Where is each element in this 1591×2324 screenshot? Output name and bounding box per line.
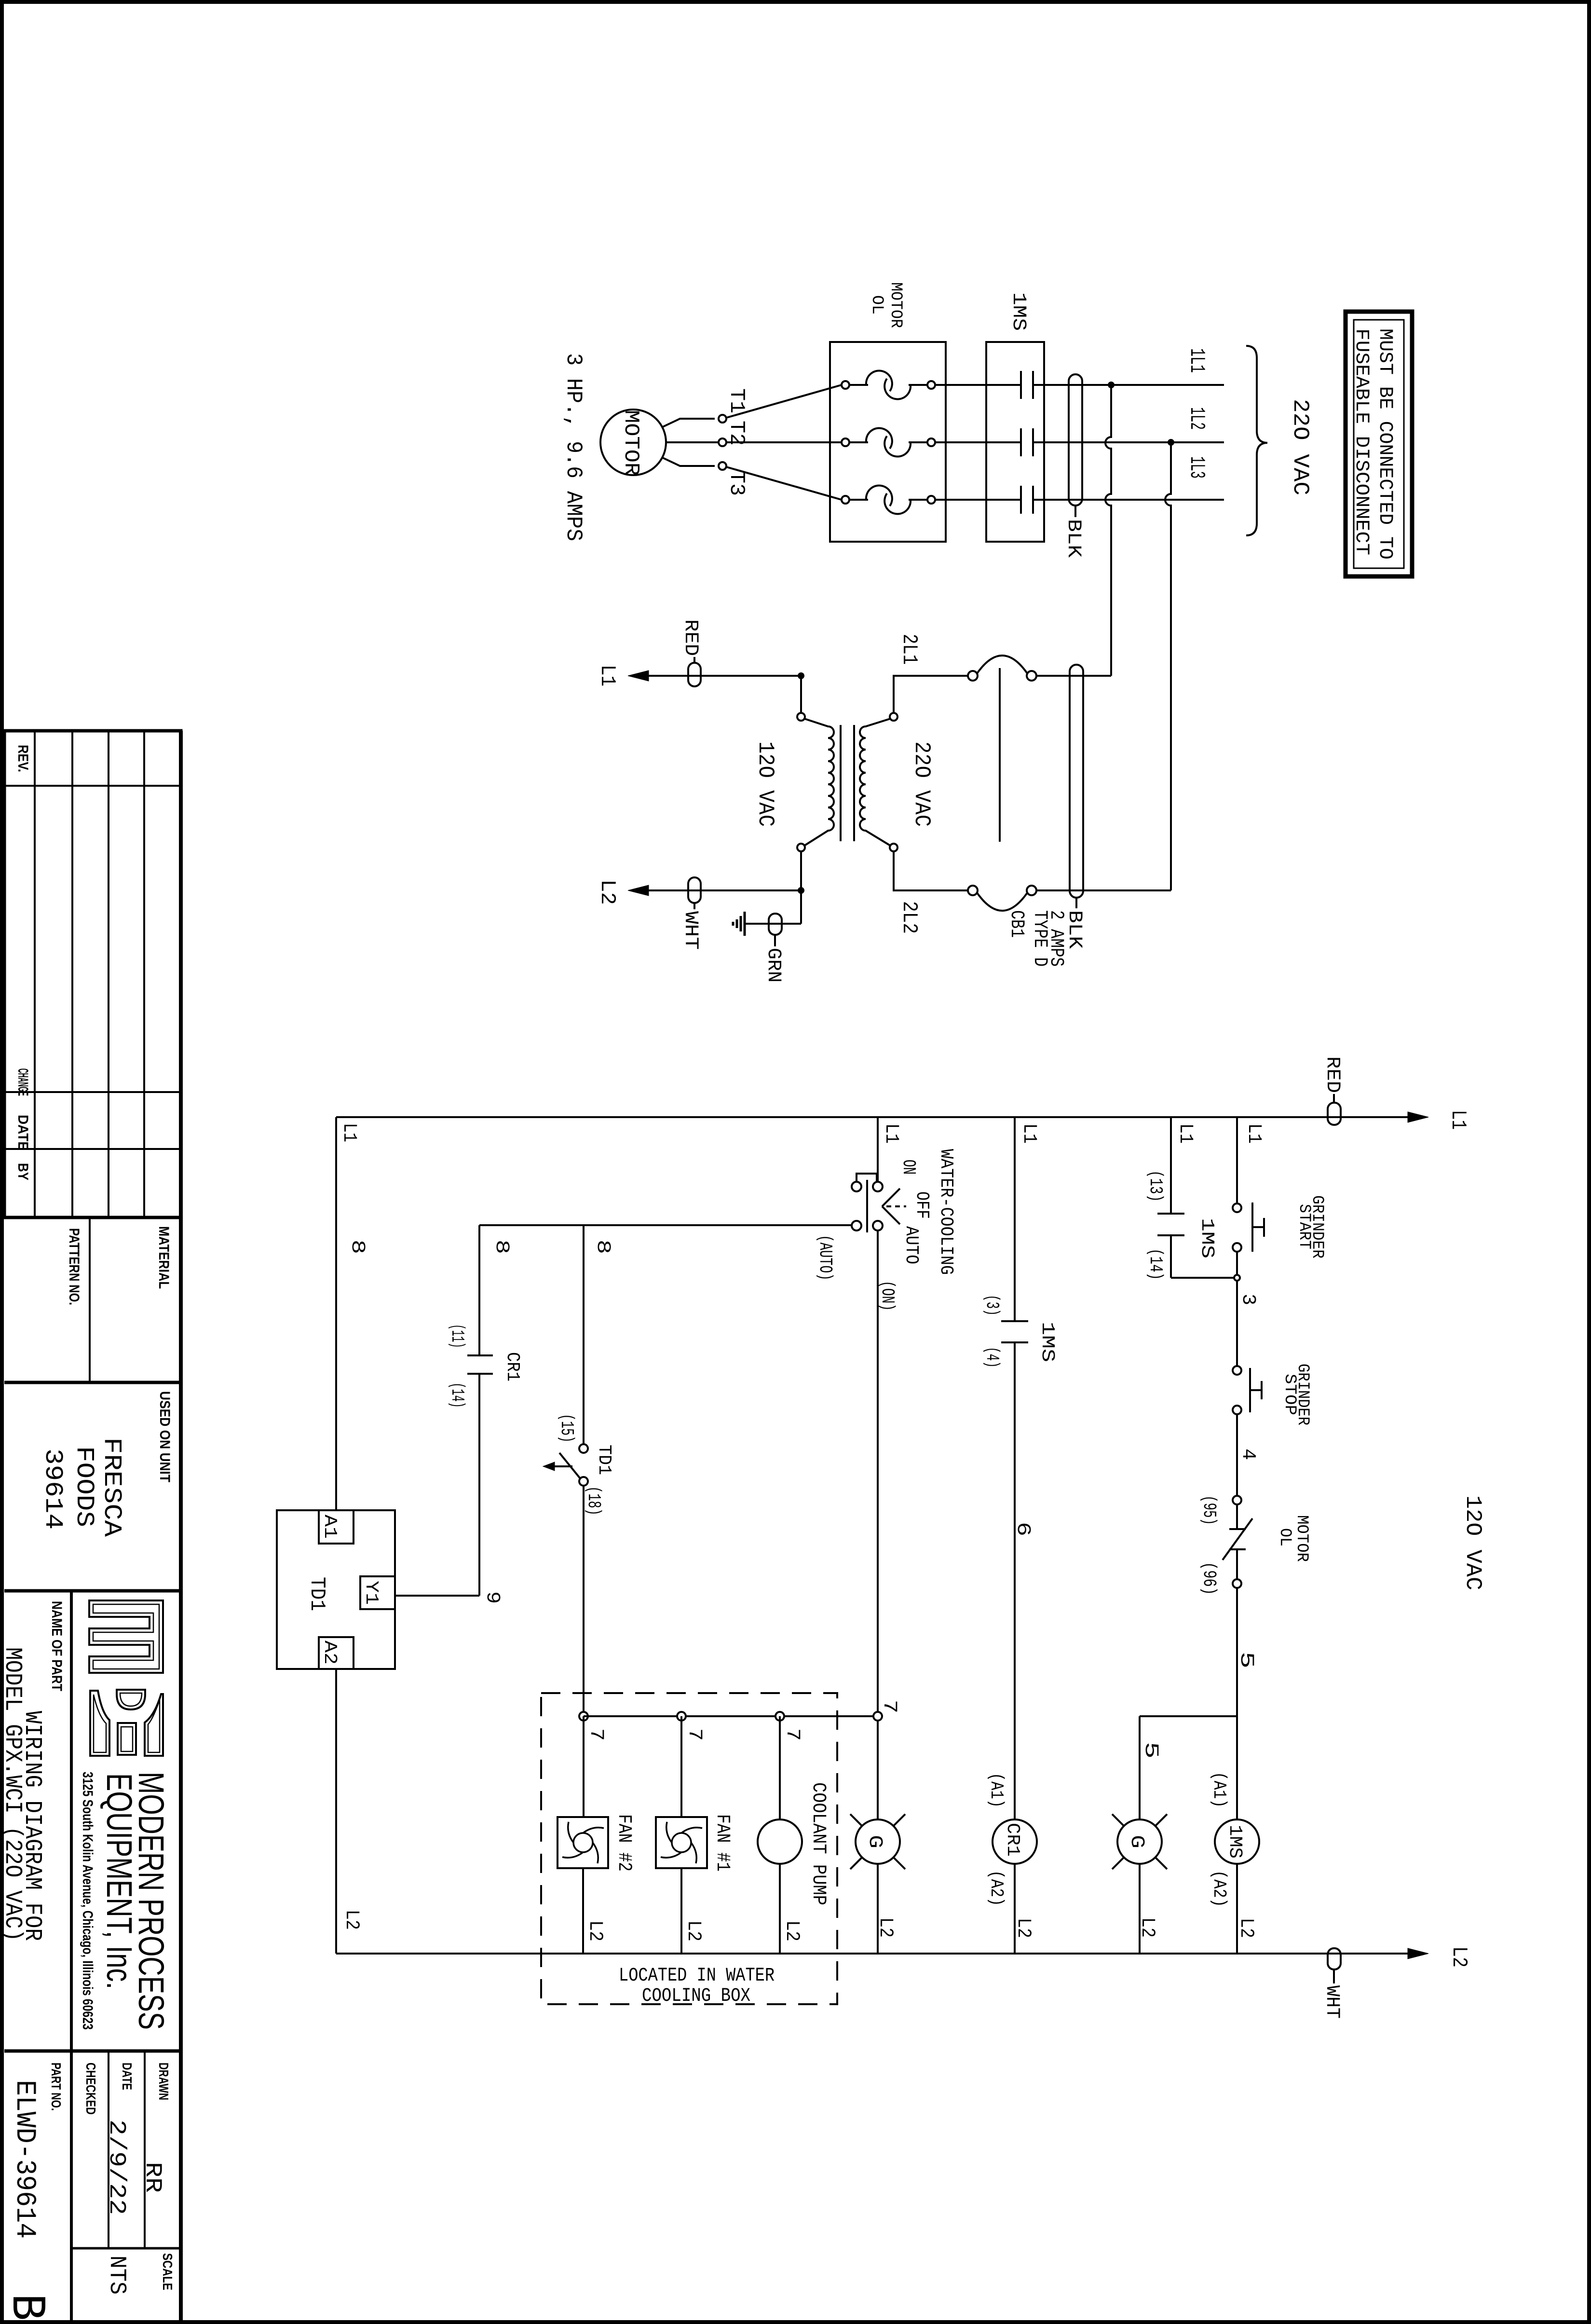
wire 1MS to bus row1: [1033, 384, 1224, 386]
1MS contact bar A row1: [1020, 371, 1022, 399]
wire CR1 coil to L2: [1014, 1864, 1016, 1954]
svg-text:RED: RED: [680, 619, 701, 656]
wire fan1 to L2: [680, 1868, 682, 1954]
svg-text:ON: ON: [898, 1160, 919, 1175]
selector contact top-right: [873, 1182, 883, 1191]
svg-text:1L1: 1L1: [1184, 348, 1209, 373]
svg-text:LOCATED IN WATER: LOCATED IN WATER: [619, 1965, 775, 1987]
junction 1L2 tap: [1168, 439, 1174, 446]
wire GRN drop: [800, 890, 802, 924]
selector lever ON: [882, 1189, 900, 1206]
wire out of OL contact: [1236, 1549, 1238, 1579]
tick WHT (transformer): [694, 903, 695, 909]
cable marker BLK oval (CB1): [1070, 665, 1083, 898]
brace 220VAC supply: [1246, 346, 1267, 535]
svg-text:FOODS: FOODS: [70, 1446, 98, 1527]
tick BLK (CB1): [1075, 898, 1077, 908]
svg-text:(A2): (A2): [1209, 1870, 1229, 1907]
wire G lamp drop (1MS): [1139, 1716, 1141, 1819]
logo P/E right bar with swoosh: [145, 1694, 163, 1756]
svg-text:5: 5: [1140, 1742, 1161, 1759]
svg-text:(96): (96): [1198, 1562, 1219, 1595]
svg-text:T1: T1: [724, 388, 748, 413]
svg-text:12O VAC: 12O VAC: [1460, 1495, 1485, 1590]
wire primary top drop: [800, 676, 802, 713]
wire CB1 to 1L1 drop: [1036, 675, 1111, 677]
svg-text:L2: L2: [1136, 1917, 1158, 1938]
svg-text:1MS: 1MS: [1197, 1218, 1217, 1258]
overload OL box: [830, 342, 946, 542]
svg-text:7: 7: [781, 1728, 803, 1741]
material section bottom: [4, 1381, 181, 1384]
svg-text:OL: OL: [868, 295, 886, 314]
revision table frame: [4, 731, 181, 1217]
relay coil CR1 circle: [993, 1819, 1037, 1864]
OL heater element row3 arc2: [884, 493, 911, 514]
drawn/date divider: [144, 2051, 146, 2248]
svg-text:FAN #2: FAN #2: [613, 1814, 635, 1872]
material/pattern divider: [89, 1217, 91, 1382]
OL heater terminal left row2: [842, 438, 849, 446]
svg-text:DATE: DATE: [120, 2063, 135, 2090]
dashed box LOCATED IN WATER COOLING BOX: [541, 1693, 837, 2004]
wire rung TD1 A1 top: [335, 1117, 337, 1510]
svg-text:FUSEABLE DISCONNECT: FUSEABLE DISCONNECT: [1350, 328, 1372, 555]
svg-text:3 HP., 9.6 AMPS: 3 HP., 9.6 AMPS: [561, 353, 586, 541]
G lamp tick NW: [1112, 1814, 1124, 1826]
wire OL row3 right stub: [909, 499, 927, 501]
1MS aux contact bar B (hold): [1157, 1234, 1184, 1236]
wire OL row1 left stub: [849, 384, 868, 386]
tick RED: [694, 657, 695, 663]
rev table col line 2: [71, 731, 73, 1217]
svg-text:EQUIPMENT, Inc.: EQUIPMENT, Inc.: [99, 1773, 139, 1989]
svg-text:PATTERN NO.: PATTERN NO.: [66, 1228, 82, 1305]
svg-text:CR1: CR1: [1002, 1823, 1023, 1857]
svg-text:L1: L1: [338, 1123, 360, 1142]
note box MUST BE CONNECTED TO FUSEABLE DISCONNECT: [1346, 312, 1412, 576]
wire holding branch bottom: [1171, 1277, 1234, 1279]
svg-text:1MS: 1MS: [1037, 1322, 1058, 1362]
rail L2 (120VAC control): [336, 1953, 1408, 1955]
svg-text:NTS: NTS: [104, 2256, 130, 2295]
svg-text:OFF: OFF: [911, 1191, 932, 1219]
CR1 contact bar A: [467, 1354, 493, 1356]
coil 1MS circle: [1215, 1819, 1259, 1864]
svg-text:L2: L2: [1447, 1946, 1471, 1968]
svg-text:7: 7: [585, 1728, 607, 1741]
svg-text:CHECKED: CHECKED: [83, 2063, 98, 2115]
svg-text:L2: L2: [1235, 1918, 1257, 1938]
tick GRN: [774, 935, 776, 946]
svg-text:8: 8: [490, 1240, 512, 1254]
ground bar 1: [744, 912, 746, 936]
wire rung CR1-contact vertical: [478, 1225, 480, 1355]
selector contact top-left: [852, 1182, 861, 1191]
OL heater terminal left row1: [842, 381, 849, 389]
scale section top: [71, 2247, 181, 2250]
svg-text:DATE: DATE: [15, 1115, 31, 1150]
CB1 terminal top-right: [1027, 671, 1036, 681]
svg-text:2L1: 2L1: [897, 634, 921, 665]
pilot light G (water) circle: [856, 1819, 900, 1864]
svg-text:(13): (13): [1145, 1170, 1166, 1202]
svg-text:(A1): (A1): [986, 1773, 1006, 1808]
fan FAN#1 box: [656, 1817, 707, 1868]
transformer primary terminal bottom: [797, 844, 805, 851]
motor M1 circle: [600, 410, 666, 475]
svg-text:6: 6: [1012, 1522, 1033, 1536]
circuit breaker CB1 pole2 arc: [977, 893, 1027, 911]
motor COOLANT PUMP circle: [758, 1819, 802, 1864]
wire L1 output (120V secondary): [636, 675, 801, 677]
svg-text:WHT: WHT: [680, 911, 701, 950]
svg-text:MATERIAL: MATERIAL: [156, 1226, 172, 1289]
wire 2L1 from secondary: [894, 676, 968, 713]
svg-text:L2: L2: [682, 1920, 704, 1941]
tick RED (rail): [1333, 1094, 1335, 1103]
transformer core line 1: [840, 725, 842, 841]
wire T3 to OL: [726, 467, 842, 500]
OL contact bar B: [1229, 1548, 1246, 1550]
wire OL row1 right stub: [909, 384, 927, 386]
svg-text:L1: L1: [595, 665, 619, 686]
cable marker BLK oval (power): [1069, 374, 1082, 506]
pushbutton GRINDER START terminal 1: [1233, 1203, 1241, 1212]
svg-text:MOTOR: MOTOR: [1292, 1515, 1311, 1562]
1MS contact bar B row1: [1032, 371, 1034, 399]
G lamp tick NE: [1156, 1814, 1167, 1826]
svg-text:FAN #1: FAN #1: [711, 1814, 733, 1872]
transformer secondary coil humps: [860, 719, 890, 846]
svg-text:22O VAC: 22O VAC: [1288, 399, 1313, 495]
rev table col line 1: [34, 731, 36, 1217]
svg-text:L1: L1: [1446, 1110, 1470, 1130]
svg-text:7: 7: [878, 1700, 900, 1713]
wire OL to 1MS row1: [935, 384, 1021, 386]
selector lever OFF (dashed): [886, 1205, 906, 1207]
svg-text:ELWD-39614: ELWD-39614: [9, 2080, 40, 2239]
drawn section top: [4, 2050, 181, 2053]
svg-text:(A1): (A1): [1209, 1772, 1229, 1808]
arrow L1 rail: [1408, 1112, 1428, 1122]
wire marker RED oval: [688, 663, 701, 686]
svg-text:(14): (14): [1145, 1248, 1166, 1280]
transformer core line 2: [853, 725, 855, 841]
wire rung2 mid: [1014, 1342, 1016, 1819]
transformer secondary terminal top: [890, 713, 897, 721]
wire OL row2 left stub: [849, 441, 868, 443]
fan FAN#2 blades: [562, 1822, 604, 1863]
svg-text:OL: OL: [1276, 1528, 1294, 1546]
svg-text:START: START: [1295, 1204, 1313, 1249]
rev table row line DATE/BY: [4, 1148, 181, 1150]
wire G2 lamp to L2: [877, 1864, 879, 1954]
circuit breaker CB1 pole1 arc: [977, 656, 1027, 673]
svg-text:(AUTO): (AUTO): [815, 1235, 835, 1281]
svg-text:39614: 39614: [39, 1449, 67, 1530]
svg-text:USED ON UNIT: USED ON UNIT: [157, 1391, 173, 1482]
overload contact terminal (96): [1233, 1579, 1241, 1588]
svg-text:COOLING BOX: COOLING BOX: [642, 1985, 750, 2007]
1MS contact bar A row3: [1020, 486, 1022, 514]
wire fan1 drop: [680, 1716, 682, 1817]
svg-text:(A2): (A2): [986, 1870, 1006, 1906]
wire rung1 top: [1236, 1117, 1238, 1203]
wire L2 output (120V secondary): [636, 889, 801, 891]
wire rung1 seg2: [1236, 1252, 1238, 1367]
wire T2 to OL: [726, 441, 842, 443]
selector top jumper: [857, 1174, 877, 1182]
svg-text:L2: L2: [584, 1920, 606, 1941]
wire G lamp to L2: [1139, 1864, 1141, 1954]
wire pump to L2: [779, 1864, 781, 1954]
svg-text:8: 8: [592, 1240, 613, 1254]
wire holding branch top: [1170, 1117, 1172, 1214]
wire rung TD1-contact vertical top: [583, 1225, 585, 1445]
svg-text:7: 7: [683, 1728, 705, 1741]
wire CR1 contact to Y1 corner: [478, 1374, 480, 1596]
arrow L2 left: [628, 885, 649, 896]
svg-text:T3: T3: [724, 471, 748, 496]
pushbutton GRINDER STOP terminal 2: [1233, 1406, 1241, 1414]
svg-text:L2: L2: [340, 1910, 362, 1930]
svg-text:2L2: 2L2: [897, 901, 921, 934]
svg-text:(15): (15): [556, 1414, 577, 1443]
svg-text:5: 5: [1235, 1652, 1257, 1668]
svg-text:DRAWN: DRAWN: [156, 2063, 171, 2100]
wire drop 1L1 to CB1 (with hops): [1105, 385, 1111, 676]
svg-text:L2: L2: [874, 1917, 896, 1938]
svg-text:3: 3: [1237, 1294, 1259, 1305]
timed contact TD1 terminal (15): [579, 1444, 588, 1453]
wire 1MS to bus row2: [1033, 441, 1224, 443]
wire marker GRN oval: [769, 914, 782, 935]
svg-text:L2: L2: [781, 1920, 802, 1941]
svg-text:1MS: 1MS: [1224, 1825, 1245, 1859]
wire holding branch mid: [1170, 1235, 1172, 1278]
wire AUTO branch: [479, 1224, 852, 1226]
rev table row line CHANGE/DATE: [4, 1091, 181, 1093]
wire OL row3 left stub: [849, 499, 868, 501]
1MS aux contact bar A (rung2): [1001, 1320, 1028, 1322]
OL heater terminal right row2: [927, 438, 935, 446]
svg-text:3125 South Kolin Avenue, Chica: 3125 South Kolin Avenue, Chicago, Illino…: [80, 1772, 95, 2030]
svg-text:A1: A1: [319, 1515, 340, 1539]
svg-text:CR1: CR1: [502, 1352, 523, 1381]
svg-text:2/9/22: 2/9/22: [103, 2119, 129, 2215]
wire G-lamp branch (1MS): [1140, 1715, 1237, 1717]
selector contact bottom-left: [852, 1221, 861, 1230]
transformer secondary terminal bottom: [890, 844, 897, 851]
pushbutton GRINDER STOP terminal 1: [1233, 1366, 1241, 1375]
svg-text:STOP: STOP: [1280, 1374, 1299, 1415]
wire pump drop: [779, 1716, 781, 1819]
svg-text:A2: A2: [319, 1640, 340, 1665]
wire Y1 horizontal: [395, 1595, 479, 1597]
OL heater element row2 arc1: [866, 428, 892, 449]
svg-text:COOLANT PUMP: COOLANT PUMP: [807, 1782, 829, 1905]
wire rung3 top: [877, 1117, 879, 1182]
svg-text:(11): (11): [447, 1324, 467, 1348]
svg-text:GRN: GRN: [762, 948, 784, 983]
junction node 7 (pump): [775, 1712, 784, 1721]
tick BLK (power): [1074, 506, 1076, 517]
overload contact terminal (95): [1233, 1496, 1241, 1504]
arrow L2 rail: [1408, 1948, 1428, 1959]
wire marker WHT oval (rail): [1328, 1948, 1341, 1969]
CB1 tie bar: [999, 668, 1001, 842]
svg-text:REV.: REV.: [15, 745, 31, 772]
contactor 1MS box: [986, 342, 1044, 542]
svg-text:8: 8: [346, 1240, 368, 1254]
OL heater element row3 arc1: [866, 486, 892, 506]
svg-text:(3): (3): [981, 1295, 1002, 1316]
CB1 terminal bottom-right: [1027, 886, 1036, 895]
G2 lamp tick NE: [894, 1814, 905, 1826]
svg-text:L2: L2: [595, 879, 619, 905]
ground bar 2: [740, 916, 742, 931]
svg-text:1MS: 1MS: [1007, 292, 1029, 331]
wire T1 to OL: [726, 385, 842, 418]
svg-text:BLK: BLK: [1062, 519, 1084, 558]
svg-text:SCALE: SCALE: [160, 2253, 175, 2290]
G2 lamp tick SW: [850, 1858, 862, 1869]
wire rung1 seg4: [1236, 1588, 1238, 1819]
svg-text:MOTOR: MOTOR: [886, 282, 905, 328]
svg-text:(95): (95): [1198, 1495, 1219, 1525]
pushbutton GRINDER START terminal 2: [1233, 1243, 1241, 1252]
wire GRN horizontal: [745, 923, 801, 925]
svg-text:NAME OF PART: NAME OF PART: [49, 1601, 65, 1691]
TD1 terminal A2 box: [319, 1637, 354, 1669]
timer relay TD1 box: [277, 1510, 395, 1669]
svg-text:B: B: [0, 2294, 53, 2321]
logo MPE (Modern Process Equipment): [89, 1600, 163, 1673]
TD1 terminal A1 box: [319, 1510, 354, 1544]
wire OL to 1MS row2: [935, 441, 1021, 443]
svg-text:1L2: 1L2: [1184, 407, 1209, 430]
svg-text:G: G: [864, 1835, 885, 1848]
svg-text:RR: RR: [139, 2162, 165, 2193]
svg-text:BLK: BLK: [1063, 910, 1085, 949]
wire TD1 A2 to L2: [335, 1669, 337, 1954]
wire drop 1L2 to CB1 (with hop): [1165, 442, 1171, 890]
wire ON drop: [877, 1230, 879, 1819]
OL contact bar A: [1229, 1528, 1246, 1530]
svg-text:L1: L1: [880, 1123, 902, 1144]
wire fan2 to L2: [582, 1868, 584, 1954]
wire marker RED oval (rail): [1328, 1103, 1341, 1125]
G lamp tick SE: [1156, 1858, 1167, 1869]
STOP plunger: [1261, 1381, 1263, 1399]
selector contact bottom-right: [873, 1221, 883, 1230]
wire TD1 contact down to fan branch: [583, 1486, 585, 1817]
wire into OL contact: [1236, 1504, 1238, 1529]
wire rung2 top: [1014, 1117, 1016, 1321]
svg-text:BY: BY: [15, 1163, 31, 1180]
START plunger: [1263, 1218, 1265, 1237]
START actuator stem: [1252, 1226, 1264, 1228]
logo P/E left bar with swoosh: [90, 1691, 109, 1756]
tick WHT (rail): [1333, 1969, 1335, 1983]
wire 2L2 from secondary: [894, 851, 968, 890]
svg-text:FRESCA: FRESCA: [97, 1437, 126, 1537]
wire motor lead T1: [662, 419, 715, 427]
wire OL to 1MS row3: [935, 499, 1021, 501]
wire fan2 drop: [583, 1716, 585, 1817]
rev table row line REV/CHANGE: [4, 785, 181, 787]
svg-text:L1: L1: [1243, 1123, 1265, 1144]
svg-text:L1: L1: [1018, 1123, 1040, 1144]
OL heater terminal left row3: [842, 496, 849, 504]
svg-text:WHT: WHT: [1321, 1985, 1343, 2019]
junction primary top: [798, 672, 804, 679]
svg-text:L2: L2: [1012, 1918, 1034, 1938]
wire rung1 seg3: [1236, 1414, 1238, 1496]
wire 1MS to bus row3: [1033, 499, 1224, 501]
TD1 contact blade: [559, 1453, 580, 1478]
selector lever AUTO: [882, 1206, 900, 1224]
TD1 arrow head: [543, 1462, 555, 1471]
svg-text:PART NO.: PART NO.: [49, 2063, 64, 2111]
svg-text:L1: L1: [1174, 1123, 1196, 1144]
svg-text:(4): (4): [981, 1347, 1002, 1368]
OL heater element row1 arc1: [866, 371, 892, 391]
terminal T3: [719, 462, 726, 470]
1MS contact bar B row2: [1032, 428, 1034, 456]
STOP contact bar: [1249, 1368, 1251, 1412]
CB1 terminal top-left: [968, 671, 978, 681]
transformer primary terminal top: [797, 713, 805, 721]
svg-text:TD1: TD1: [305, 1577, 329, 1611]
arrow L1 left: [628, 670, 649, 681]
CB1 terminal bottom-left: [968, 886, 978, 895]
svg-text:WATER-COOLING: WATER-COOLING: [936, 1149, 956, 1275]
logo P/E middle bar: [118, 1723, 136, 1755]
svg-text:(ON): (ON): [877, 1281, 897, 1311]
junction node 3 circle: [1234, 1275, 1240, 1281]
fan FAN#1 blades: [661, 1822, 702, 1863]
CR1 contact bar B: [467, 1373, 493, 1375]
STOP actuator stem: [1250, 1389, 1262, 1391]
START contact bar: [1251, 1203, 1253, 1252]
wire motor lead T3: [662, 457, 715, 466]
1MS aux contact bar B (rung2): [1001, 1341, 1028, 1343]
TD1 arrow shaft: [554, 1465, 572, 1467]
timed contact TD1 terminal (18): [579, 1477, 588, 1486]
wire CB1 to 1L2 drop: [1036, 889, 1171, 891]
rev table col line 4: [143, 731, 145, 1217]
svg-text:TD1: TD1: [594, 1445, 614, 1475]
junction 1L1 tap: [1108, 382, 1115, 388]
1MS contact bar A row2: [1020, 428, 1022, 456]
svg-text:RED: RED: [1321, 1056, 1343, 1093]
svg-text:CHANGE: CHANGE: [15, 1068, 31, 1096]
logo P/E D-bowl: [117, 1690, 145, 1709]
fan FAN#2 box: [558, 1817, 608, 1868]
junction node 7 (fan1): [677, 1712, 686, 1721]
G2 lamp tick SE: [894, 1858, 905, 1869]
G lamp tick SW: [1112, 1858, 1124, 1869]
svg-text:CB1: CB1: [1006, 910, 1027, 938]
svg-text:9: 9: [481, 1591, 503, 1604]
svg-text:(18): (18): [583, 1486, 604, 1516]
name-of-part divider: [70, 1591, 73, 2322]
1MS contact bar B row3: [1032, 486, 1034, 514]
svg-text:12O VAC: 12O VAC: [753, 741, 778, 827]
svg-text:MODEL GPX.WCI (22O VAC): MODEL GPX.WCI (22O VAC): [0, 1647, 26, 1941]
